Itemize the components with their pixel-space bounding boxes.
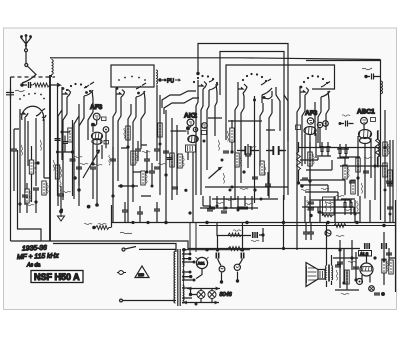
- AF3-2 top circle: [307, 118, 313, 124]
- AVC coupling line: [217, 223, 265, 251]
- caps above chassis left-center: [122, 210, 128, 212]
- AF3-2 vres left: [297, 152, 301, 170]
- AF3-2 leads: [305, 128, 320, 223]
- shield box2: [220, 52, 284, 201]
- AF3 second circle: [103, 127, 109, 133]
- AF3-2 res rect: [308, 152, 312, 166]
- svg-text:AK2: AK2: [184, 113, 197, 120]
- chassis bus second line: [199, 225, 396, 227]
- T6 dots: [300, 86, 303, 89]
- cap above DW: [216, 248, 221, 265]
- main top bus: [50, 58, 381, 60]
- right lower stack: [382, 232, 389, 285]
- center dots: [203, 140, 206, 143]
- vertical to L1 right of box2: [283, 195, 285, 249]
- tube T1 left electrode: [20, 109, 28, 126]
- right mid components under ABC1: [343, 165, 347, 179]
- dot above ground: [87, 205, 91, 209]
- oscillator shield box T3: [111, 65, 154, 87]
- AF3 grid dot: [91, 123, 95, 127]
- transformer primary winding: [174, 251, 176, 303]
- AK2 second circle: [193, 127, 197, 131]
- resistor lower left: [25, 189, 29, 203]
- squiggles center band: [227, 131, 228, 142]
- AF3 tube body hatched: [92, 132, 103, 144]
- ABC1 vres right: [376, 139, 380, 157]
- right res boxes: [351, 180, 355, 194]
- small res zigzag right: [322, 214, 333, 217]
- squiggle labels bottom right: [336, 235, 344, 236]
- small lamp below AL2: [369, 286, 375, 292]
- right components: [383, 163, 387, 177]
- tube T4 left electrode: [198, 80, 207, 96]
- speaker hatch: [308, 268, 317, 280]
- value label 240pF: [15, 90, 25, 92]
- stepped wires right of box2: [276, 87, 288, 195]
- shield box3: [226, 65, 335, 140]
- capacitor on left box wall: [6, 89, 14, 99]
- antenna coupling coil: [52, 60, 54, 75]
- grid dots T1: [19, 93, 45, 100]
- ABC1 leads: [358, 124, 371, 199]
- svg-text:ABC1: ABC1: [357, 109, 375, 116]
- cap on x14: [11, 149, 17, 151]
- AL2 label box: [359, 251, 372, 257]
- caps near AF3: [144, 159, 150, 161]
- ABC1 res rect right: [383, 142, 387, 156]
- DW DR lower leads: [222, 272, 238, 281]
- DR circle: [234, 264, 240, 270]
- mixer grid circle: [202, 123, 208, 129]
- svg-text:220: 220: [138, 273, 144, 277]
- stepped horizontals bottom right: [300, 185, 360, 213]
- ground symbol left: [57, 205, 65, 221]
- tube T2 right electrode: [84, 82, 94, 104]
- right edge vertical: [393, 140, 396, 292]
- coil on right box edge: [381, 81, 383, 94]
- resistor chain right: [334, 224, 346, 228]
- ABC1 right rect: [371, 118, 376, 122]
- cap above DR: [239, 248, 245, 265]
- res with squiggle mid: [141, 171, 145, 185]
- bottom-right caps: [337, 262, 343, 264]
- output transformer: [325, 265, 332, 282]
- AF3 top cap circle: [93, 113, 100, 120]
- AF3-2 tube body: [304, 127, 316, 135]
- arrows on lamp bus: [184, 287, 219, 304]
- AF3 grid cap wire: [93, 120, 97, 132]
- cap left-mid B: [70, 159, 76, 161]
- cap pair AF3 bottom: [90, 167, 96, 169]
- DW circle: [219, 266, 225, 272]
- cap at right box top: [364, 74, 380, 80]
- mid-right cap clusters: [319, 142, 331, 156]
- squiggles center: [124, 128, 125, 139]
- coil near T3 box: [156, 70, 158, 84]
- winding density overlay: [174, 252, 183, 303]
- speaker cone: [306, 263, 325, 287]
- AK2 top circle: [187, 119, 194, 126]
- resistor lower: [55, 165, 59, 179]
- AF3 leads: [93, 132, 106, 205]
- tube T1 right electrode: [36, 109, 46, 127]
- right cluster above chassis: [305, 196, 370, 222]
- T4 leads: [196, 92, 217, 195]
- riser to output cluster: [296, 222, 298, 250]
- svg-text:8046: 8046: [220, 292, 233, 298]
- AVC line: [298, 147, 381, 149]
- handwritten 1935-36: [17, 245, 60, 269]
- squiggles near x57: [53, 160, 54, 171]
- right verticals: [375, 110, 390, 222]
- arrow into tuning: [50, 83, 60, 87]
- squiggle texts right bottom: [321, 188, 329, 189]
- AK2 tube body: [188, 135, 198, 142]
- volume pot arrow: [83, 150, 100, 178]
- T6 leads: [297, 100, 329, 222]
- chassis bus: [112, 222, 397, 224]
- components center (IF): [230, 128, 234, 142]
- right shield box top: [306, 60, 380, 62]
- cap lower: [58, 194, 64, 196]
- svg-text:1935-36: 1935-36: [22, 245, 47, 253]
- bottom-right dots: [338, 248, 341, 251]
- tie wires center-left: [118, 148, 141, 186]
- junction dot: [71, 150, 74, 153]
- tie wire left-mid: [58, 132, 73, 152]
- rectifier feed line: [182, 249, 250, 251]
- ABC1 tube body: [359, 130, 372, 144]
- dot in left box: [36, 161, 39, 164]
- T2 leads stepping down: [58, 99, 93, 206]
- mid column extra components: [110, 159, 116, 161]
- tube T3 left electrode: [116, 88, 125, 104]
- svg-text:NSF H50 A: NSF H50 A: [34, 272, 80, 282]
- cap mid: [62, 142, 68, 144]
- svg-text:AF3: AF3: [90, 104, 103, 111]
- AF3-2 left box: [296, 125, 301, 130]
- T3 grid dots: [118, 76, 146, 81]
- cap pair on x57: [55, 139, 61, 141]
- antenna shield box: [11, 75, 56, 241]
- IF tuning cap A: [241, 146, 255, 155]
- cap right col: [387, 207, 393, 209]
- AK2 leads: [171, 126, 194, 222]
- L2 line to transformer: [53, 244, 176, 253]
- ABC1 top circle: [361, 117, 368, 124]
- mid verticals between T3 and box1: [160, 95, 177, 222]
- cap on T1 lead: [22, 195, 28, 197]
- tube T5 left electrode: [238, 82, 247, 100]
- svg-text:MF + 115 kHz: MF + 115 kHz: [17, 253, 60, 261]
- antenna: [21, 35, 32, 49]
- dial lamps: [197, 291, 205, 299]
- tube T6 left electrode: [300, 86, 309, 102]
- heater line label: [120, 232, 132, 234]
- AK2 grid dot: [186, 126, 190, 130]
- IF tuning cap B: [269, 146, 283, 155]
- step verticals: [318, 185, 354, 213]
- cap on x157: [154, 149, 160, 151]
- tube T3 right electrode: [136, 83, 146, 105]
- AF3 right rect label: [104, 141, 109, 144]
- stair wires T3-to-box1: [162, 91, 199, 114]
- resistor on 227.5 line: [92, 226, 96, 230]
- rectifier tube AS1: [196, 257, 209, 269]
- top cluster above chassis center: [203, 196, 253, 213]
- wire y187 center: [205, 186, 288, 188]
- AF3-2 right circle: [317, 122, 322, 127]
- right lower caps: [386, 253, 392, 255]
- AF3-2 grid circle right: [323, 121, 329, 127]
- right-mid horizontals: [300, 166, 388, 180]
- speaker coil detail: [307, 266, 323, 283]
- right cap: [386, 181, 392, 183]
- wire y208 center: [200, 207, 258, 209]
- right lower wires: [333, 248, 396, 290]
- wire: [141, 145, 151, 196]
- resistor on L1: [228, 247, 242, 251]
- svg-text:AS1: AS1: [198, 262, 205, 266]
- antenna switch: [22, 49, 36, 83]
- small circle below AL2: [357, 279, 363, 285]
- AK2 column res: [178, 154, 182, 168]
- caps bottom right: [303, 232, 309, 234]
- svg-text:AL2: AL2: [360, 251, 369, 256]
- AL2 tube: [360, 263, 373, 276]
- shield box1: [198, 44, 288, 151]
- svg-text:AF3: AF3: [305, 110, 318, 117]
- ABC1 input cap: [339, 115, 354, 127]
- mixer small rect: [202, 131, 207, 135]
- node dot: [20, 83, 24, 87]
- T4 grid dots: [193, 75, 218, 84]
- lamp dot: [189, 293, 192, 296]
- rectifier lower dot: [189, 275, 192, 278]
- right shield box right edge: [380, 60, 382, 221]
- box1 left end dot: [196, 72, 199, 75]
- wires to box bottom: [20, 178, 50, 213]
- dots center: [146, 171, 149, 174]
- T1 lead components: resistor: [29, 160, 33, 174]
- squiggle labels left box: [21, 145, 22, 156]
- svg-text:As da: As da: [26, 263, 40, 269]
- mains lead: [120, 299, 176, 302]
- tube T2 left electrode: [62, 87, 71, 104]
- resistor mid: [68, 128, 72, 142]
- AK2 base rect: [186, 145, 196, 152]
- T3 dots: [116, 87, 119, 90]
- mains switch: [122, 247, 176, 252]
- risers above rectifier: [190, 222, 196, 254]
- center vertical text columns: [218, 140, 219, 151]
- power transformer core: [178, 249, 180, 306]
- cap left-mid A: [76, 167, 82, 169]
- AF3-2 cap: [302, 178, 308, 180]
- output transformer wires: [327, 222, 332, 287]
- right horizontal jogs: [300, 155, 332, 170]
- bottom-right extra verticals: [340, 240, 356, 288]
- NSF H50 A title box: [31, 271, 83, 283]
- AL2 leads: [362, 256, 370, 283]
- T5 center lead: [254, 96, 256, 108]
- PU input: [158, 78, 162, 82]
- tube T5 right electrode: [261, 79, 272, 105]
- transformer secondary windings: [183, 251, 185, 267]
- lamp wires: [182, 289, 220, 303]
- T5 grid dots: [242, 73, 267, 82]
- components on those: [158, 123, 162, 137]
- bottom right components: [325, 230, 331, 236]
- warning triangle: [135, 266, 149, 278]
- capacitor in series with antenna coil: [22, 82, 33, 88]
- secondary taps: [182, 254, 194, 303]
- transformer tap dots: [189, 253, 192, 256]
- big dot: [73, 176, 77, 180]
- chassis left vertical: [111, 205, 113, 228]
- T6 grid dots: [303, 75, 328, 84]
- junction dots: [126, 145, 129, 148]
- resistor R2 left box: [42, 181, 46, 195]
- cap mid2: [154, 167, 160, 169]
- fuse glyph: [117, 271, 126, 275]
- tube T6 right electrode: [321, 82, 330, 106]
- right coil near edge: [378, 140, 380, 157]
- cap value squiggle: [362, 68, 372, 70]
- res label squiggle: [35, 162, 36, 173]
- svg-text:PU: PU: [167, 79, 174, 85]
- antenna coil winding: [33, 83, 52, 87]
- tube T1 envelope arc: [22, 106, 44, 121]
- T5 leads down: [235, 97, 272, 203]
- smoothing caps top right: [344, 202, 346, 208]
- junction dots bottom of box: [18, 202, 21, 205]
- extra verticals left-mid: [62, 110, 79, 206]
- T3 leads stepping down: [113, 99, 145, 222]
- AF3 small rect label: [102, 117, 107, 121]
- left-mid vertical wires: [58, 85, 73, 196]
- AK2 column caps: [167, 158, 173, 160]
- dots left-mid: [56, 151, 59, 154]
- bottom long line L1: [50, 241, 360, 249]
- pot diagonal center: [209, 168, 222, 179]
- chassis junction dots: [164, 221, 167, 224]
- ties center band: [208, 118, 275, 130]
- resistor chain center-left: [126, 126, 130, 140]
- dots AF3: [91, 162, 94, 165]
- cap2 on T1 lead: [33, 188, 39, 190]
- caps column x311: [308, 202, 314, 204]
- T1 leads down: [20, 121, 44, 204]
- T2 dot markers: [62, 87, 65, 90]
- tuning gang T2 grid dots: [66, 83, 91, 92]
- tube T4 right electrode: [209, 79, 218, 98]
